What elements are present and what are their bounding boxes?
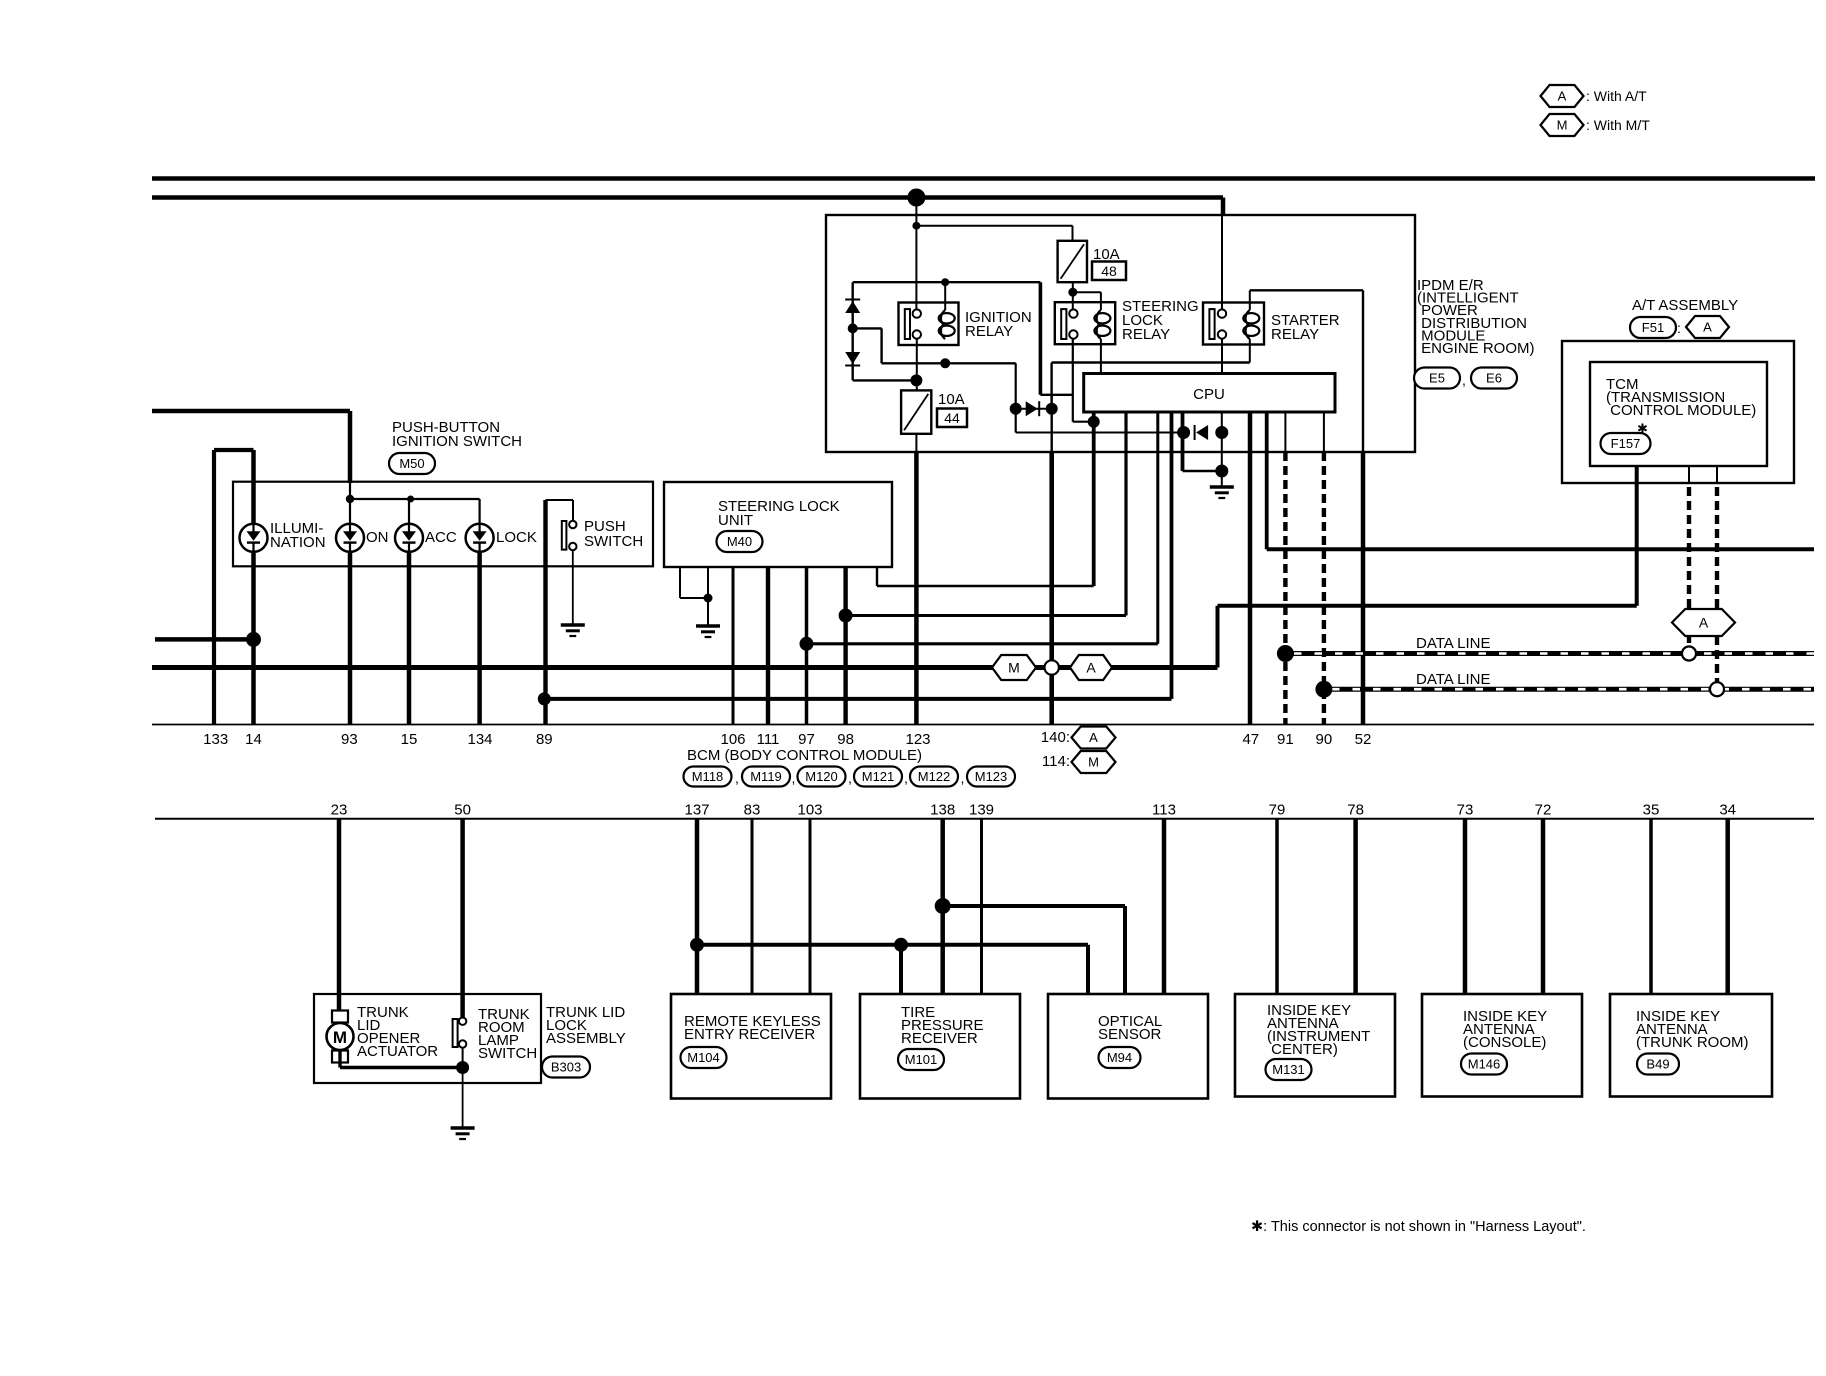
svg-text:,: , [904, 770, 908, 786]
svg-text:M94: M94 [1107, 1050, 1132, 1065]
svg-text:111: 111 [757, 731, 780, 748]
svg-text:138: 138 [930, 802, 955, 819]
svg-text:113: 113 [1152, 802, 1176, 819]
svg-text:,: , [848, 770, 852, 786]
svg-text:72: 72 [1535, 802, 1552, 819]
svg-text:BCM (BODY CONTROL MODULE): BCM (BODY CONTROL MODULE) [687, 747, 922, 764]
svg-text:(CONSOLE): (CONSOLE) [1463, 1034, 1546, 1051]
svg-text:91: 91 [1277, 731, 1294, 748]
svg-text:B49: B49 [1646, 1057, 1669, 1072]
svg-text:44: 44 [944, 410, 960, 426]
svg-text:M40: M40 [727, 534, 752, 549]
svg-text:RELAY: RELAY [1271, 326, 1319, 343]
svg-text:CPU: CPU [1193, 386, 1225, 403]
svg-text:DATA LINE: DATA LINE [1416, 671, 1490, 688]
svg-text:M119: M119 [750, 769, 782, 784]
svg-text:139: 139 [969, 802, 994, 819]
svg-text:140:: 140: [1041, 729, 1070, 746]
svg-text:34: 34 [1719, 802, 1736, 819]
svg-text:ON: ON [366, 529, 389, 546]
svg-text:14: 14 [245, 731, 262, 748]
svg-text:E5: E5 [1429, 371, 1445, 386]
svg-text:M121: M121 [862, 769, 895, 784]
svg-text:83: 83 [744, 802, 761, 819]
svg-text:: With A/T: : With A/T [1586, 88, 1647, 104]
svg-text:M122: M122 [918, 769, 951, 784]
svg-text:: With M/T: : With M/T [1586, 117, 1650, 133]
svg-text:48: 48 [1101, 263, 1117, 279]
svg-text:M104: M104 [687, 1050, 720, 1065]
svg-text:CENTER): CENTER) [1267, 1041, 1338, 1058]
svg-text:RELAY: RELAY [1122, 326, 1170, 343]
svg-text:M50: M50 [399, 456, 424, 471]
svg-text:98: 98 [837, 731, 854, 748]
svg-text:IGNITION SWITCH: IGNITION SWITCH [392, 433, 522, 450]
svg-text:RELAY: RELAY [965, 323, 1013, 340]
svg-text:F51: F51 [1642, 320, 1664, 335]
svg-text:M: M [1088, 755, 1099, 770]
svg-text:M146: M146 [1468, 1057, 1501, 1072]
svg-text:ENGINE ROOM): ENGINE ROOM) [1417, 340, 1535, 357]
svg-text:,: , [735, 770, 739, 786]
svg-text:DATA LINE: DATA LINE [1416, 635, 1490, 652]
svg-text:B303: B303 [551, 1060, 581, 1075]
svg-text:89: 89 [536, 731, 553, 748]
svg-text:73: 73 [1457, 802, 1474, 819]
svg-text:A: A [1558, 89, 1567, 104]
svg-text:A: A [1086, 659, 1096, 675]
svg-text:M123: M123 [975, 769, 1008, 784]
svg-text:50: 50 [454, 802, 471, 819]
svg-text:CONTROL MODULE): CONTROL MODULE) [1606, 402, 1756, 419]
svg-text:M: M [1557, 118, 1568, 133]
svg-text:M118: M118 [692, 769, 724, 784]
svg-text:SENSOR: SENSOR [1098, 1026, 1162, 1043]
svg-text:97: 97 [798, 731, 815, 748]
svg-text:✱: This connector is not shown: ✱: This connector is not shown in "Harne… [1251, 1219, 1586, 1235]
svg-text:78: 78 [1347, 802, 1364, 819]
svg-text:ACC: ACC [425, 529, 457, 546]
svg-text:ENTRY RECEIVER: ENTRY RECEIVER [684, 1026, 815, 1043]
svg-text:,: , [1462, 372, 1466, 388]
svg-text:SWITCH: SWITCH [478, 1045, 537, 1062]
svg-text:RECEIVER: RECEIVER [901, 1030, 978, 1047]
svg-text:,: , [961, 770, 965, 786]
svg-text:15: 15 [401, 731, 418, 748]
svg-text:35: 35 [1643, 802, 1660, 819]
svg-text:M: M [333, 1028, 347, 1047]
svg-text::: : [1677, 320, 1681, 336]
svg-text:LOCK: LOCK [496, 529, 537, 546]
svg-text:79: 79 [1269, 802, 1286, 819]
svg-text:52: 52 [1355, 731, 1372, 748]
svg-text:123: 123 [905, 731, 930, 748]
svg-text:E6: E6 [1486, 371, 1502, 386]
svg-text:ASSEMBLY: ASSEMBLY [546, 1030, 626, 1047]
svg-text:23: 23 [331, 802, 348, 819]
svg-text:90: 90 [1316, 731, 1333, 748]
svg-text:103: 103 [797, 802, 822, 819]
svg-text:93: 93 [341, 731, 358, 748]
svg-text:M101: M101 [905, 1052, 938, 1067]
svg-text:,: , [792, 770, 796, 786]
svg-text:133: 133 [203, 731, 228, 748]
svg-text:A: A [1089, 730, 1098, 745]
svg-text:134: 134 [467, 731, 492, 748]
svg-text:114:: 114: [1042, 753, 1070, 770]
svg-text:F157: F157 [1611, 436, 1641, 451]
svg-text:M131: M131 [1272, 1062, 1305, 1077]
svg-text:NATION: NATION [270, 534, 326, 551]
svg-text:106: 106 [720, 731, 745, 748]
svg-text:137: 137 [684, 802, 709, 819]
svg-text:A/T ASSEMBLY: A/T ASSEMBLY [1632, 297, 1738, 314]
svg-text:ACTUATOR: ACTUATOR [357, 1043, 438, 1060]
svg-text:A: A [1703, 320, 1712, 335]
svg-text:UNIT: UNIT [718, 512, 753, 529]
svg-text:M: M [1008, 659, 1020, 675]
svg-text:47: 47 [1242, 731, 1259, 748]
svg-text:10A: 10A [938, 391, 965, 408]
svg-text:SWITCH: SWITCH [584, 533, 643, 550]
svg-text:A: A [1699, 614, 1709, 630]
svg-text:M120: M120 [805, 769, 838, 784]
svg-text:(TRUNK ROOM): (TRUNK ROOM) [1636, 1034, 1749, 1051]
